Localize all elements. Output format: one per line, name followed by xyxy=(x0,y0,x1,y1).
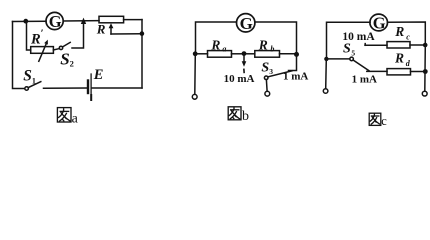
wire: top rail G to potentiometer xyxy=(63,20,99,22)
svg-text:G: G xyxy=(240,14,253,33)
svg-text:S: S xyxy=(343,41,351,56)
switch S3 lever xyxy=(268,71,292,77)
node: junction arrow up at S2-branch top xyxy=(81,18,86,24)
battery E long plate xyxy=(90,74,92,100)
svg-text:5: 5 xyxy=(351,49,355,58)
svg-text:S: S xyxy=(23,67,32,84)
battery E short plate xyxy=(87,81,89,94)
svg-text:1 mA: 1 mA xyxy=(283,71,308,83)
terminal (fig c left) xyxy=(323,89,328,94)
wire: right vertical to lever contact stub xyxy=(289,54,297,70)
wire: Ra to mid dot xyxy=(232,53,245,55)
wire: Rc branch open contact xyxy=(364,44,366,46)
label 图a xyxy=(57,108,71,122)
battery E long plate lower blob xyxy=(90,95,92,100)
switch S1 lever xyxy=(28,82,41,88)
terminal (fig c right) xyxy=(422,91,427,96)
wire: figure a left vertical and bottom-left segment xyxy=(13,22,25,89)
svg-text:1 mA: 1 mA xyxy=(352,74,377,86)
galvanometer G (fig a) xyxy=(46,12,63,29)
wire: wiper to right vertical xyxy=(111,33,142,35)
node: junction dot left of Ra xyxy=(193,51,198,56)
galvanometer G (fig b) xyxy=(237,14,255,32)
wire: dot to Ra xyxy=(196,53,208,55)
wire: left vertical below dot to terminal xyxy=(325,59,328,89)
label 图c xyxy=(369,113,381,125)
wire: S2 contact to branch vertical and up to top rail xyxy=(72,21,84,48)
svg-text:a: a xyxy=(222,45,226,54)
svg-text:a: a xyxy=(72,111,79,126)
svg-text:′: ′ xyxy=(41,28,44,40)
node: junction dot Rd right xyxy=(423,69,428,74)
potentiometer R wiper arrow xyxy=(110,27,112,35)
node: junction dot right of Rb xyxy=(294,52,299,57)
potentiometer R box xyxy=(99,16,124,23)
wire: mid dot to Rb xyxy=(244,53,255,55)
switch S5 pivot xyxy=(350,57,354,61)
svg-text:1: 1 xyxy=(32,76,36,85)
node: junction dot left vertical xyxy=(324,57,328,61)
svg-text:R: R xyxy=(394,24,404,39)
wire: lever tip to Rd xyxy=(367,70,387,72)
terminal (fig b right) xyxy=(265,91,270,96)
wire: 10 mA tap stub with down arrow xyxy=(243,56,245,64)
wire: below S3 pivot to terminal xyxy=(265,80,268,92)
wire: Rb to right dot xyxy=(280,53,297,55)
node: junction dot Rc right xyxy=(423,43,428,48)
wire: figure c top rail xyxy=(327,22,371,59)
svg-text:G: G xyxy=(49,12,62,31)
svg-text:10 mA: 10 mA xyxy=(224,73,255,85)
wire: dot to S5 pivot xyxy=(328,58,350,60)
switch S2 pivot xyxy=(59,46,62,49)
svg-text:R: R xyxy=(30,31,41,47)
switch S3 pivot xyxy=(264,76,268,80)
resistor Rb box xyxy=(255,51,280,58)
node: junction dot right vertical xyxy=(140,31,145,36)
svg-text:R: R xyxy=(96,22,106,37)
svg-text:S: S xyxy=(60,49,69,68)
svg-text:R: R xyxy=(210,37,220,52)
node: junction dot mid xyxy=(242,51,247,56)
wire: bottom rail from S1 contact to battery xyxy=(44,87,87,89)
svg-text:b: b xyxy=(270,45,274,54)
resistor Rd box xyxy=(387,69,411,75)
svg-text:c: c xyxy=(381,114,387,128)
wire: bottom rail battery to right corner xyxy=(92,87,142,89)
wire: Rd to right vertical xyxy=(411,71,426,73)
svg-text:c: c xyxy=(406,33,410,42)
wire: figure b top rail xyxy=(196,22,237,54)
rheostat R' diagonal arrow xyxy=(39,43,47,61)
wire: R' box to S2 pivot xyxy=(53,49,59,50)
svg-text:d: d xyxy=(406,59,411,68)
resistor Rc box xyxy=(387,42,410,48)
galvanometer G (fig c) xyxy=(370,14,388,31)
svg-text:R: R xyxy=(258,37,268,52)
switch S2 lever xyxy=(63,42,71,47)
wire: inner loop left vertical xyxy=(27,21,31,50)
svg-text:R: R xyxy=(394,50,404,65)
resistor Ra box xyxy=(208,51,232,58)
wire: figure a right vertical xyxy=(141,20,143,88)
switch S5 lever xyxy=(353,60,369,71)
node: junction dot top-left xyxy=(23,19,28,24)
wire: top rail left segment xyxy=(13,20,47,22)
svg-text:3: 3 xyxy=(269,67,273,76)
svg-text:E: E xyxy=(93,67,104,83)
wire: potentiometer to right corner xyxy=(124,19,142,21)
svg-text:2: 2 xyxy=(70,59,74,69)
tick below stub arrow xyxy=(243,69,245,72)
wire: left vertical below dot to terminal xyxy=(194,54,197,95)
svg-text:S: S xyxy=(261,60,269,75)
wire: right vertical down to terminal xyxy=(424,45,427,91)
svg-text:b: b xyxy=(242,109,249,124)
svg-text:G: G xyxy=(373,13,386,32)
terminal (fig b left) xyxy=(192,94,197,99)
switch S1 pivot xyxy=(25,87,29,91)
wire: Rc to right vertical xyxy=(410,44,425,46)
rheostat R' box xyxy=(31,47,54,54)
label 图b xyxy=(228,107,241,120)
